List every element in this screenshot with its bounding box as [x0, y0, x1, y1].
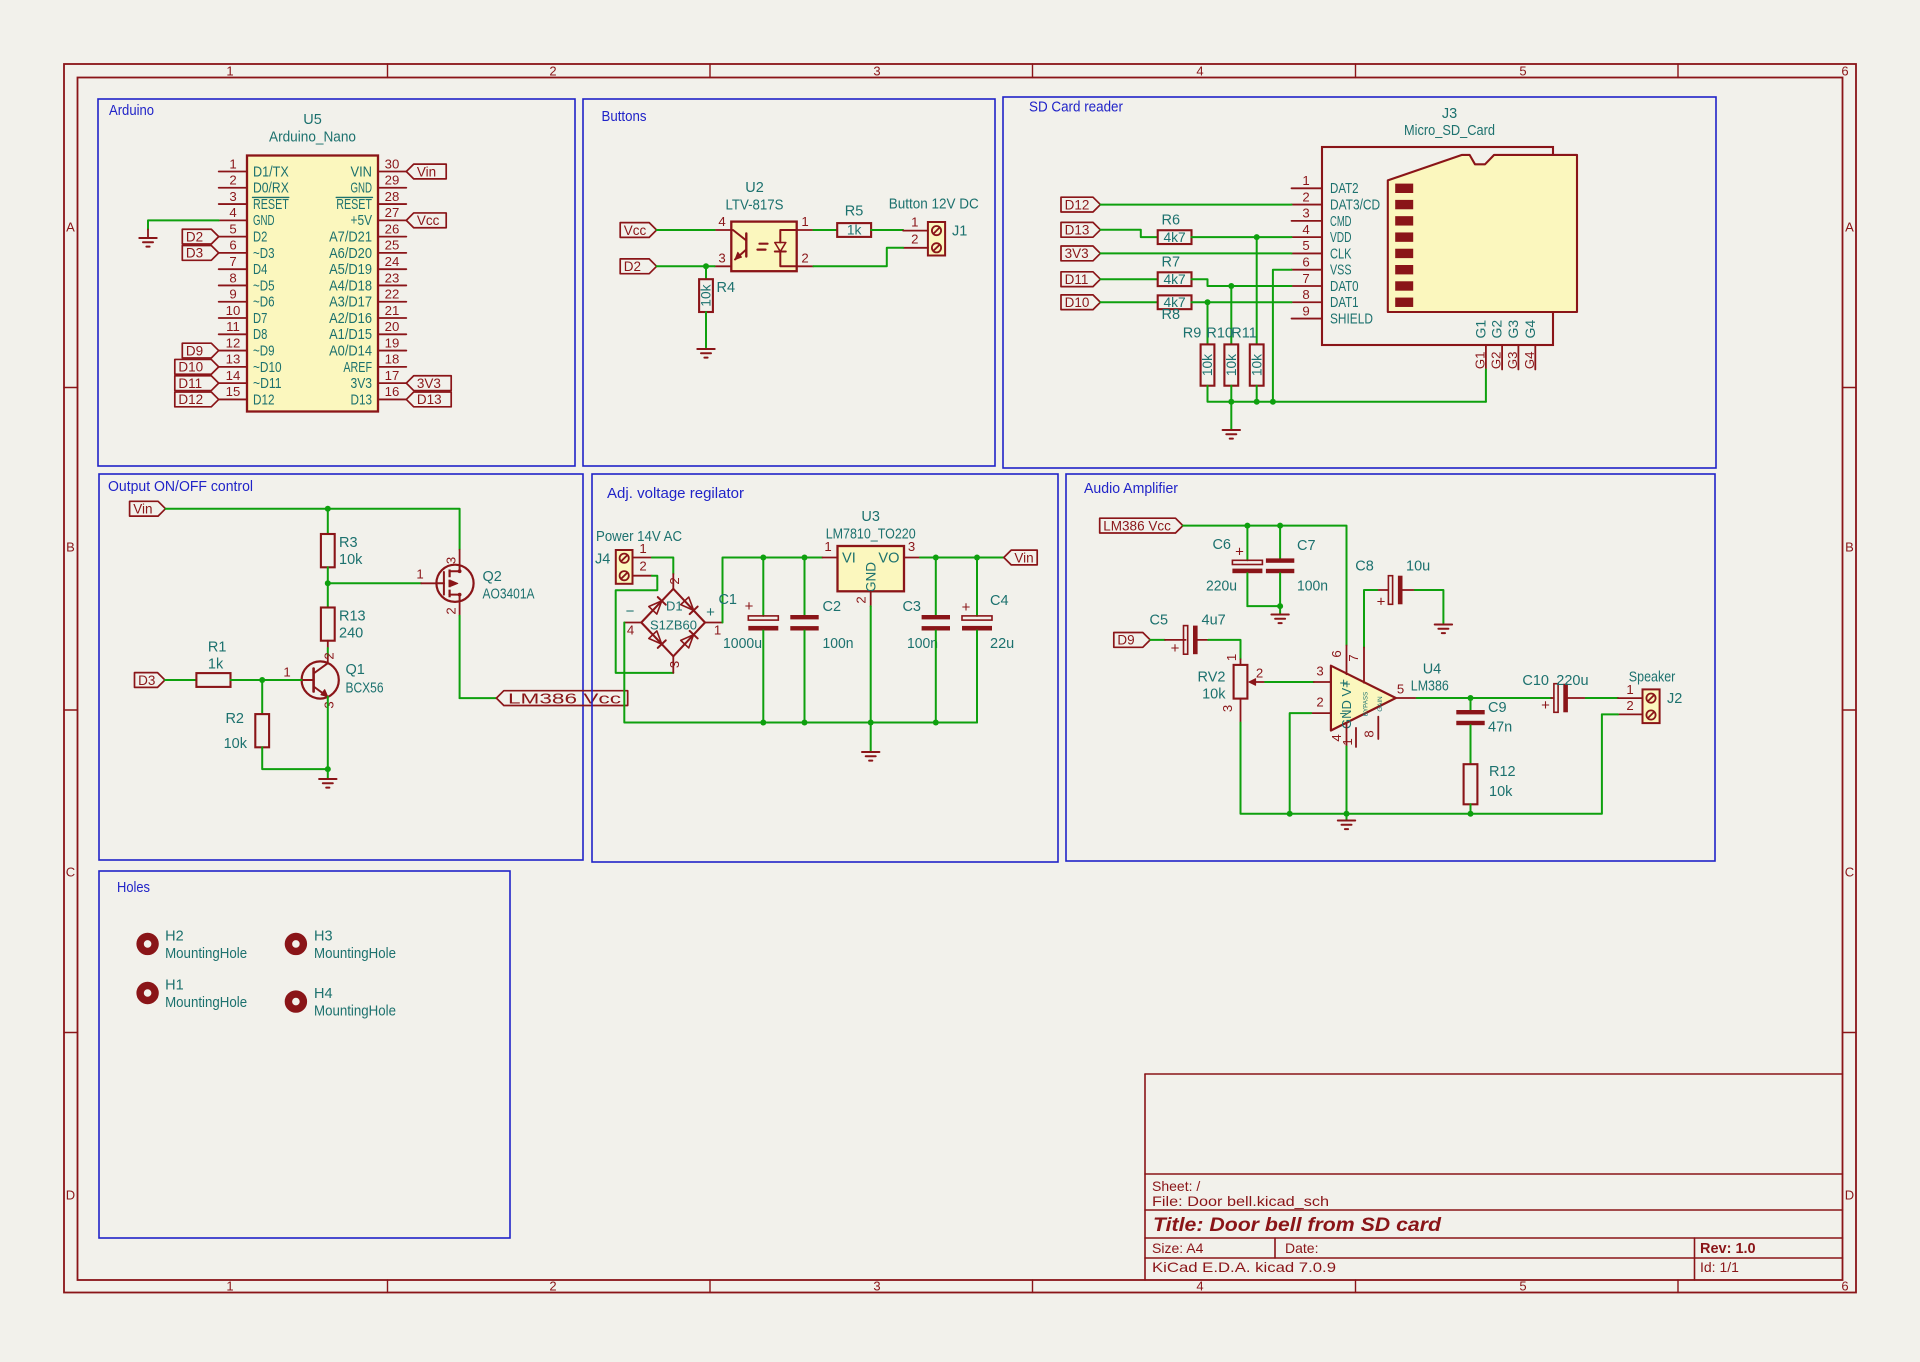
svg-text:Q2: Q2: [483, 569, 502, 585]
wire junction to Q2 gate: [328, 582, 421, 584]
svg-text:6: 6: [1329, 650, 1344, 657]
J3 pin G3: [1505, 320, 1521, 370]
svg-text:+: +: [1541, 697, 1550, 714]
svg-text:G3: G3: [1505, 352, 1520, 370]
svg-text:C4: C4: [990, 593, 1009, 609]
U2 pin 4: [715, 214, 732, 230]
svg-text:VIN: VIN: [351, 164, 373, 180]
junction C9 top on output: [1468, 695, 1474, 701]
svg-text:+: +: [1377, 594, 1386, 611]
svg-text:3: 3: [667, 661, 682, 668]
frame row letters right: [1845, 220, 1854, 1203]
U5 pin 27 (+5V): [351, 205, 407, 229]
section box Audio Amplifier: [1066, 474, 1715, 861]
svg-text:C7: C7: [1297, 538, 1316, 554]
wire R6 to J3 VDD: [1192, 236, 1292, 238]
svg-text:D12: D12: [178, 392, 203, 407]
svg-text:+: +: [706, 604, 715, 621]
svg-text:22u: 22u: [990, 636, 1014, 652]
wire D12 to J3 DAT3/CD: [1100, 204, 1291, 206]
svg-text:2: 2: [1256, 666, 1263, 681]
svg-text:12: 12: [226, 335, 241, 350]
svg-text:100n: 100n: [1297, 579, 1328, 595]
wire R9 bottom to ground rail: [1208, 386, 1486, 402]
svg-text:U4: U4: [1423, 662, 1442, 678]
wire junction down to R4: [705, 266, 707, 279]
frame row letters left: [66, 220, 75, 1203]
svg-text:1: 1: [1340, 738, 1355, 745]
svg-text:DAT3/CD: DAT3/CD: [1330, 197, 1380, 213]
svg-text:R13: R13: [339, 609, 366, 625]
svg-text:23: 23: [385, 270, 400, 285]
connector J3 outline: [1322, 147, 1553, 345]
connector J1 screw 1: [932, 226, 941, 235]
ground symbol output control: [319, 779, 336, 788]
svg-text:47n: 47n: [1488, 720, 1512, 736]
op-amp U5 body (Arduino_Nano): [247, 156, 378, 412]
svg-text:4: 4: [229, 205, 236, 220]
svg-text:DAT2: DAT2: [1330, 181, 1359, 197]
wire U5 GND pin 4 to ground: [148, 220, 219, 229]
svg-text:D3: D3: [138, 673, 155, 688]
section box SD Card reader: [1003, 97, 1716, 468]
audio ground rail: [1241, 714, 1602, 813]
wire U4 output to C10: [1417, 697, 1552, 699]
mounting hole H1: [140, 978, 247, 1012]
wire R1 to Q1 base: [231, 679, 302, 681]
wire D3 to R1: [165, 679, 197, 681]
svg-text:5: 5: [1519, 1279, 1526, 1294]
wire R10 top: [1230, 286, 1232, 344]
svg-text:3: 3: [873, 64, 880, 79]
svg-text:D2: D2: [253, 230, 267, 246]
U5 pin 29 (GND): [351, 173, 407, 197]
wire C10 to J2 pin 1: [1586, 697, 1618, 699]
svg-text:Vin: Vin: [133, 502, 152, 517]
svg-text:R2: R2: [225, 711, 244, 727]
svg-text:9: 9: [229, 287, 236, 302]
frame column numbers top: [226, 64, 1848, 79]
resistor R13: [321, 608, 366, 642]
svg-text:10k: 10k: [1200, 354, 1215, 376]
svg-text:U5: U5: [303, 112, 322, 128]
svg-text:C: C: [1845, 865, 1854, 880]
svg-text:LM7810_TO220: LM7810_TO220: [826, 527, 916, 543]
wire U2 pin 1 to R5: [813, 229, 837, 231]
J3 pin 3 (CMD): [1292, 206, 1352, 230]
junction emitter ground net: [325, 766, 331, 772]
svg-text:1: 1: [1224, 654, 1239, 661]
svg-text:10k: 10k: [1249, 354, 1264, 376]
svg-text:RESET: RESET: [253, 197, 289, 213]
svg-text:Speaker: Speaker: [1629, 670, 1676, 686]
svg-text:R7: R7: [1162, 255, 1181, 271]
U5 pin 16 (D13): [351, 384, 407, 408]
svg-text:7: 7: [229, 254, 236, 269]
wire 3V3 to J3 CLK: [1100, 252, 1291, 254]
svg-text:10k: 10k: [699, 284, 714, 306]
hierarchical label D13 (U5 right): [406, 392, 451, 407]
svg-text:1: 1: [229, 156, 236, 171]
svg-text:10u: 10u: [1406, 559, 1430, 575]
svg-text:R3: R3: [339, 535, 358, 551]
hierarchical label D2 (U5 left): [182, 229, 218, 244]
svg-text:R10: R10: [1206, 326, 1233, 342]
U5 pin 7 (D4): [219, 254, 268, 278]
wire C8 right to ground: [1415, 590, 1444, 623]
svg-text:G3: G3: [1505, 320, 1521, 339]
wire R13 to Q1 collector: [327, 641, 329, 664]
svg-text:D12: D12: [253, 392, 275, 408]
svg-text:VDD: VDD: [1330, 230, 1352, 246]
svg-text:B: B: [1845, 540, 1854, 555]
U5 pin 3 (RESET): [219, 189, 289, 213]
J1 pin 1: [903, 214, 928, 230]
optocoupler U2 light coupling dashes: [758, 244, 768, 250]
svg-text:29: 29: [385, 173, 400, 188]
connector J2 screw 2: [1646, 710, 1655, 719]
svg-text:R1: R1: [208, 639, 227, 655]
wire R12 to rail: [1470, 804, 1472, 813]
svg-text:6: 6: [1841, 1279, 1848, 1294]
wire R10 bottom: [1230, 386, 1232, 402]
svg-text:3: 3: [322, 701, 337, 708]
svg-text:2: 2: [1626, 698, 1633, 713]
svg-text:D: D: [66, 1188, 75, 1203]
mounting hole H4: [288, 986, 396, 1020]
svg-text:Date:: Date:: [1285, 1240, 1318, 1256]
J3 pin 6 (VSS): [1292, 255, 1352, 279]
transistor Q2 AO3401A: [416, 550, 534, 616]
svg-text:Vin: Vin: [417, 164, 436, 179]
svg-text:1: 1: [911, 214, 918, 229]
U2 pin 1: [797, 214, 814, 230]
wire R8 to J3 DAT1: [1192, 301, 1292, 303]
svg-text:6: 6: [229, 238, 236, 253]
svg-text:J3: J3: [1442, 106, 1457, 122]
capacitor C10 220u: [1522, 673, 1588, 714]
J3 pin 1 (DAT2): [1292, 173, 1359, 197]
wire LM386 Vcc rail: [1183, 526, 1347, 646]
hierarchical label LM386 Vcc (output control): [496, 691, 627, 708]
connector J3 micro SD card shape: [1388, 155, 1577, 312]
svg-text:18: 18: [385, 352, 400, 367]
wire ground rail to GND regulator: [870, 723, 872, 752]
svg-text:D1/TX: D1/TX: [253, 164, 289, 180]
wire R7 to J3 DAT0: [1192, 279, 1292, 286]
svg-text:GND: GND: [864, 562, 879, 592]
svg-text:3: 3: [718, 250, 725, 265]
svg-text:4k7: 4k7: [1163, 272, 1185, 287]
U5 pin 8 (~D5): [219, 270, 275, 294]
svg-text:GND: GND: [253, 213, 275, 229]
svg-text:Id: 1/1: Id: 1/1: [1700, 1259, 1739, 1275]
hierarchical label D3 (output control): [135, 673, 165, 688]
J2 pin 2: [1618, 698, 1643, 714]
frame row ticks left: [64, 388, 78, 1033]
svg-text:C10: C10: [1522, 673, 1549, 689]
svg-text:Holes: Holes: [117, 880, 150, 896]
junction R11 bottom: [1254, 399, 1260, 405]
svg-text:2: 2: [667, 577, 682, 584]
U5 pin 13 (~D10): [219, 352, 282, 376]
connector J4 screw 1: [620, 554, 629, 563]
svg-text:8: 8: [1302, 287, 1309, 302]
resistor R12: [1464, 764, 1516, 804]
svg-text:CLK: CLK: [1330, 246, 1352, 262]
svg-text:D11: D11: [178, 376, 202, 391]
U5 pin 6 (~D3): [219, 238, 275, 262]
mounting hole H3: [288, 928, 396, 962]
svg-text:Buttons: Buttons: [602, 109, 647, 125]
capacitor C7 100n: [1266, 526, 1328, 607]
svg-text:C3: C3: [902, 599, 921, 615]
wire rail to audio ground symbol: [1346, 814, 1348, 820]
svg-text:G4: G4: [1522, 320, 1538, 339]
svg-text:9: 9: [1302, 303, 1309, 318]
svg-text:LM386 Vcc: LM386 Vcc: [508, 691, 621, 707]
svg-text:−: −: [626, 603, 635, 620]
svg-text:A3/D17: A3/D17: [329, 295, 372, 311]
svg-text:A5/D19: A5/D19: [329, 262, 372, 278]
svg-text:Micro_SD_Card: Micro_SD_Card: [1404, 123, 1495, 139]
junction R10 bottom: [1228, 399, 1234, 405]
capacitor C1 1000u: [718, 558, 778, 723]
svg-text:AO3401A: AO3401A: [483, 587, 535, 603]
svg-text:10k: 10k: [1489, 784, 1513, 800]
svg-text:Arduino_Nano: Arduino_Nano: [269, 130, 356, 146]
svg-text:U2: U2: [745, 180, 764, 196]
svg-text:1: 1: [1626, 682, 1633, 697]
resistor R6: [1158, 213, 1192, 245]
junction pin2 drop on rail: [1287, 811, 1293, 817]
svg-text:~D5: ~D5: [253, 278, 275, 294]
svg-text:R6: R6: [1162, 213, 1181, 229]
U5 pin 22 (A3/D17): [329, 287, 406, 311]
wire D10 to R8: [1100, 301, 1157, 303]
wire D9 to C5: [1150, 639, 1165, 641]
svg-text:4u7: 4u7: [1202, 613, 1226, 629]
hierarchical label Vin (U5 right): [406, 164, 446, 179]
svg-text:LM386 Vcc: LM386 Vcc: [1103, 518, 1171, 533]
svg-text:2: 2: [911, 232, 918, 247]
svg-text:BYPASS: BYPASS: [1363, 692, 1370, 716]
J3 pin G4: [1522, 320, 1538, 370]
svg-text:1: 1: [801, 214, 808, 229]
svg-text:25: 25: [385, 238, 400, 253]
resistor R4: [699, 279, 735, 312]
svg-text:R8: R8: [1162, 307, 1181, 323]
section box Adj. voltage regilator: [592, 474, 1058, 862]
wire RV2 wiper to U4 pin 3: [1265, 681, 1314, 683]
svg-text:Rev: 1.0: Rev: 1.0: [1700, 1241, 1756, 1257]
svg-text:LM386: LM386: [1411, 679, 1449, 695]
wire Vin rail down to R3: [327, 509, 329, 534]
svg-text:26: 26: [385, 221, 400, 236]
J4 pin 1: [633, 541, 652, 558]
svg-text:7: 7: [1346, 654, 1361, 661]
connector J1 body: [928, 222, 945, 256]
wire U4 pin 4 to ground rail: [1346, 747, 1348, 814]
wire Vin rail to Q2 source: [166, 509, 460, 550]
junction R11 top on VDD net: [1254, 234, 1260, 240]
svg-text:D13: D13: [1065, 223, 1090, 238]
bridge rectifier D1 S1ZB60: [624, 574, 722, 673]
J3 pin 7 (DAT0): [1292, 271, 1359, 295]
svg-text:20: 20: [385, 319, 400, 334]
svg-text:MountingHole: MountingHole: [314, 946, 396, 962]
connector J2 body: [1643, 689, 1660, 723]
svg-text:1: 1: [639, 541, 646, 556]
wire R2 bottom to emitter net: [262, 747, 328, 769]
svg-text:D2: D2: [624, 259, 641, 274]
hierarchical label 3V3 (U5 right): [406, 376, 451, 391]
svg-text:G2: G2: [1489, 320, 1505, 339]
svg-text:GND: GND: [351, 181, 373, 197]
svg-text:R5: R5: [845, 204, 864, 220]
U5 pin 4 (GND): [219, 205, 275, 229]
resistor R1: [196, 639, 230, 687]
svg-text:Output ON/OFF control: Output ON/OFF control: [108, 479, 253, 495]
svg-text:3: 3: [229, 189, 236, 204]
svg-text:C1: C1: [718, 592, 737, 608]
svg-text:D12: D12: [1065, 197, 1090, 212]
ground symbol regulator: [862, 752, 879, 761]
svg-text:Arduino: Arduino: [109, 103, 154, 119]
svg-text:LTV-817S: LTV-817S: [726, 198, 784, 214]
svg-text:D4: D4: [253, 262, 267, 278]
wire J2 pin 2 to rail drop: [1602, 713, 1618, 715]
junction C3 top: [933, 555, 939, 561]
wire D11 to R7: [1100, 278, 1157, 280]
svg-text:D11: D11: [1065, 272, 1089, 287]
svg-text:H4: H4: [314, 986, 333, 1002]
svg-text:+: +: [745, 598, 754, 615]
U2 pin 2: [797, 250, 814, 266]
svg-text:R11: R11: [1231, 326, 1257, 342]
capacitor C5 4u7: [1150, 613, 1226, 658]
svg-text:SD Card reader: SD Card reader: [1029, 100, 1123, 116]
ground symbol below C7: [1271, 615, 1288, 624]
wire J4 pin 2 to bridge AC bottom: [616, 576, 674, 673]
section box Holes: [99, 871, 510, 1238]
U5 pin 20 (A1/D15): [329, 319, 406, 343]
frame column ticks top: [388, 64, 1679, 78]
svg-text:R9: R9: [1183, 326, 1202, 342]
connector J4 screw 2: [620, 571, 629, 580]
U5 pin 18 (AREF): [343, 352, 406, 376]
svg-text:G1: G1: [1472, 352, 1487, 370]
svg-text:3: 3: [444, 557, 459, 564]
svg-text:D: D: [1845, 1188, 1854, 1203]
svg-text:A1/D15: A1/D15: [329, 327, 372, 343]
svg-text:1: 1: [283, 665, 290, 680]
wire Q1 emitter down: [327, 697, 329, 769]
svg-text:1: 1: [714, 623, 721, 638]
hierarchical label D3 (U5 left): [182, 246, 218, 261]
svg-text:MountingHole: MountingHole: [314, 1004, 396, 1020]
svg-text:8: 8: [229, 270, 236, 285]
svg-text:2: 2: [639, 559, 646, 574]
svg-text:4: 4: [1196, 1279, 1203, 1294]
wire D13 to R6: [1100, 230, 1157, 237]
svg-text:C: C: [66, 865, 75, 880]
ground symbol audio amp: [1338, 821, 1355, 830]
svg-text:D10: D10: [1065, 295, 1090, 310]
title block outline: [1145, 1074, 1843, 1280]
wire bridge plus to VI rail: [723, 558, 823, 623]
svg-text:2: 2: [229, 173, 236, 188]
J3 pin G2: [1489, 320, 1505, 370]
wire R11 bottom: [1256, 386, 1258, 402]
svg-text:100n: 100n: [907, 636, 938, 652]
svg-text:8: 8: [1362, 730, 1377, 737]
svg-text:D0/RX: D0/RX: [253, 181, 289, 197]
ground symbol at U5 pin 4: [139, 230, 156, 247]
resistor R10: [1206, 326, 1239, 386]
junction C6 top: [1244, 523, 1250, 529]
junction C6 C7 ground node: [1277, 603, 1283, 609]
svg-text:1: 1: [226, 64, 233, 79]
svg-text:Adj. voltage regilator: Adj. voltage regilator: [607, 486, 744, 502]
svg-text:Vcc: Vcc: [417, 213, 440, 228]
wire Vcc to U2 pin 4: [657, 229, 715, 231]
wire R3 to R13: [327, 567, 329, 607]
svg-text:VI: VI: [842, 550, 856, 566]
svg-text:MountingHole: MountingHole: [165, 995, 247, 1011]
svg-text:220u: 220u: [1556, 673, 1588, 689]
U5 pin 15 (D12): [219, 384, 275, 408]
ground symbol SD reader: [1223, 430, 1240, 439]
svg-text:24: 24: [385, 254, 400, 269]
U5 pin 5 (D2): [219, 221, 268, 245]
junction C1 bottom: [760, 720, 766, 726]
junction U3 GND on rail: [868, 720, 874, 726]
svg-text:2: 2: [801, 250, 808, 265]
svg-text:~D6: ~D6: [253, 295, 275, 311]
wire U4 pin 2 to ground rail: [1290, 713, 1312, 814]
junction C2 bottom: [802, 720, 808, 726]
U5 pin 28 (RESET): [336, 189, 406, 213]
svg-text:Vcc: Vcc: [624, 223, 647, 238]
wire J4 pin 1 to bridge AC top: [652, 558, 673, 575]
U2 pin 3: [715, 250, 732, 266]
svg-text:~D3: ~D3: [253, 246, 275, 262]
svg-text:C9: C9: [1488, 700, 1507, 716]
svg-text:4: 4: [627, 623, 634, 638]
J1 pin 2: [903, 232, 928, 248]
junction Q2 gate net: [325, 580, 331, 586]
svg-text:A2/D16: A2/D16: [329, 311, 372, 327]
wire Q2 drain to LM386 Vcc label: [460, 697, 497, 699]
svg-text:U3: U3: [861, 509, 880, 525]
U5 pin 17 (3V3): [351, 368, 407, 392]
svg-text:File: Door bell.kicad_sch: File: Door bell.kicad_sch: [1152, 1193, 1329, 1209]
svg-text:A: A: [66, 220, 75, 235]
svg-text:D2: D2: [186, 229, 203, 244]
J3 pin 9 (SHIELD): [1292, 303, 1373, 327]
svg-text:10k: 10k: [1202, 687, 1226, 703]
svg-text:5: 5: [1519, 64, 1526, 79]
U5 pin 11 (D8): [219, 319, 268, 343]
resistor R8: [1158, 295, 1192, 323]
svg-text:11: 11: [226, 319, 240, 334]
hierarchical label Vin (output control): [130, 501, 166, 516]
hierarchical label D11 (SD): [1061, 272, 1100, 287]
svg-text:22: 22: [385, 287, 400, 302]
hierarchical label 3V3 (SD): [1061, 246, 1100, 261]
svg-text:AREF: AREF: [343, 360, 372, 376]
